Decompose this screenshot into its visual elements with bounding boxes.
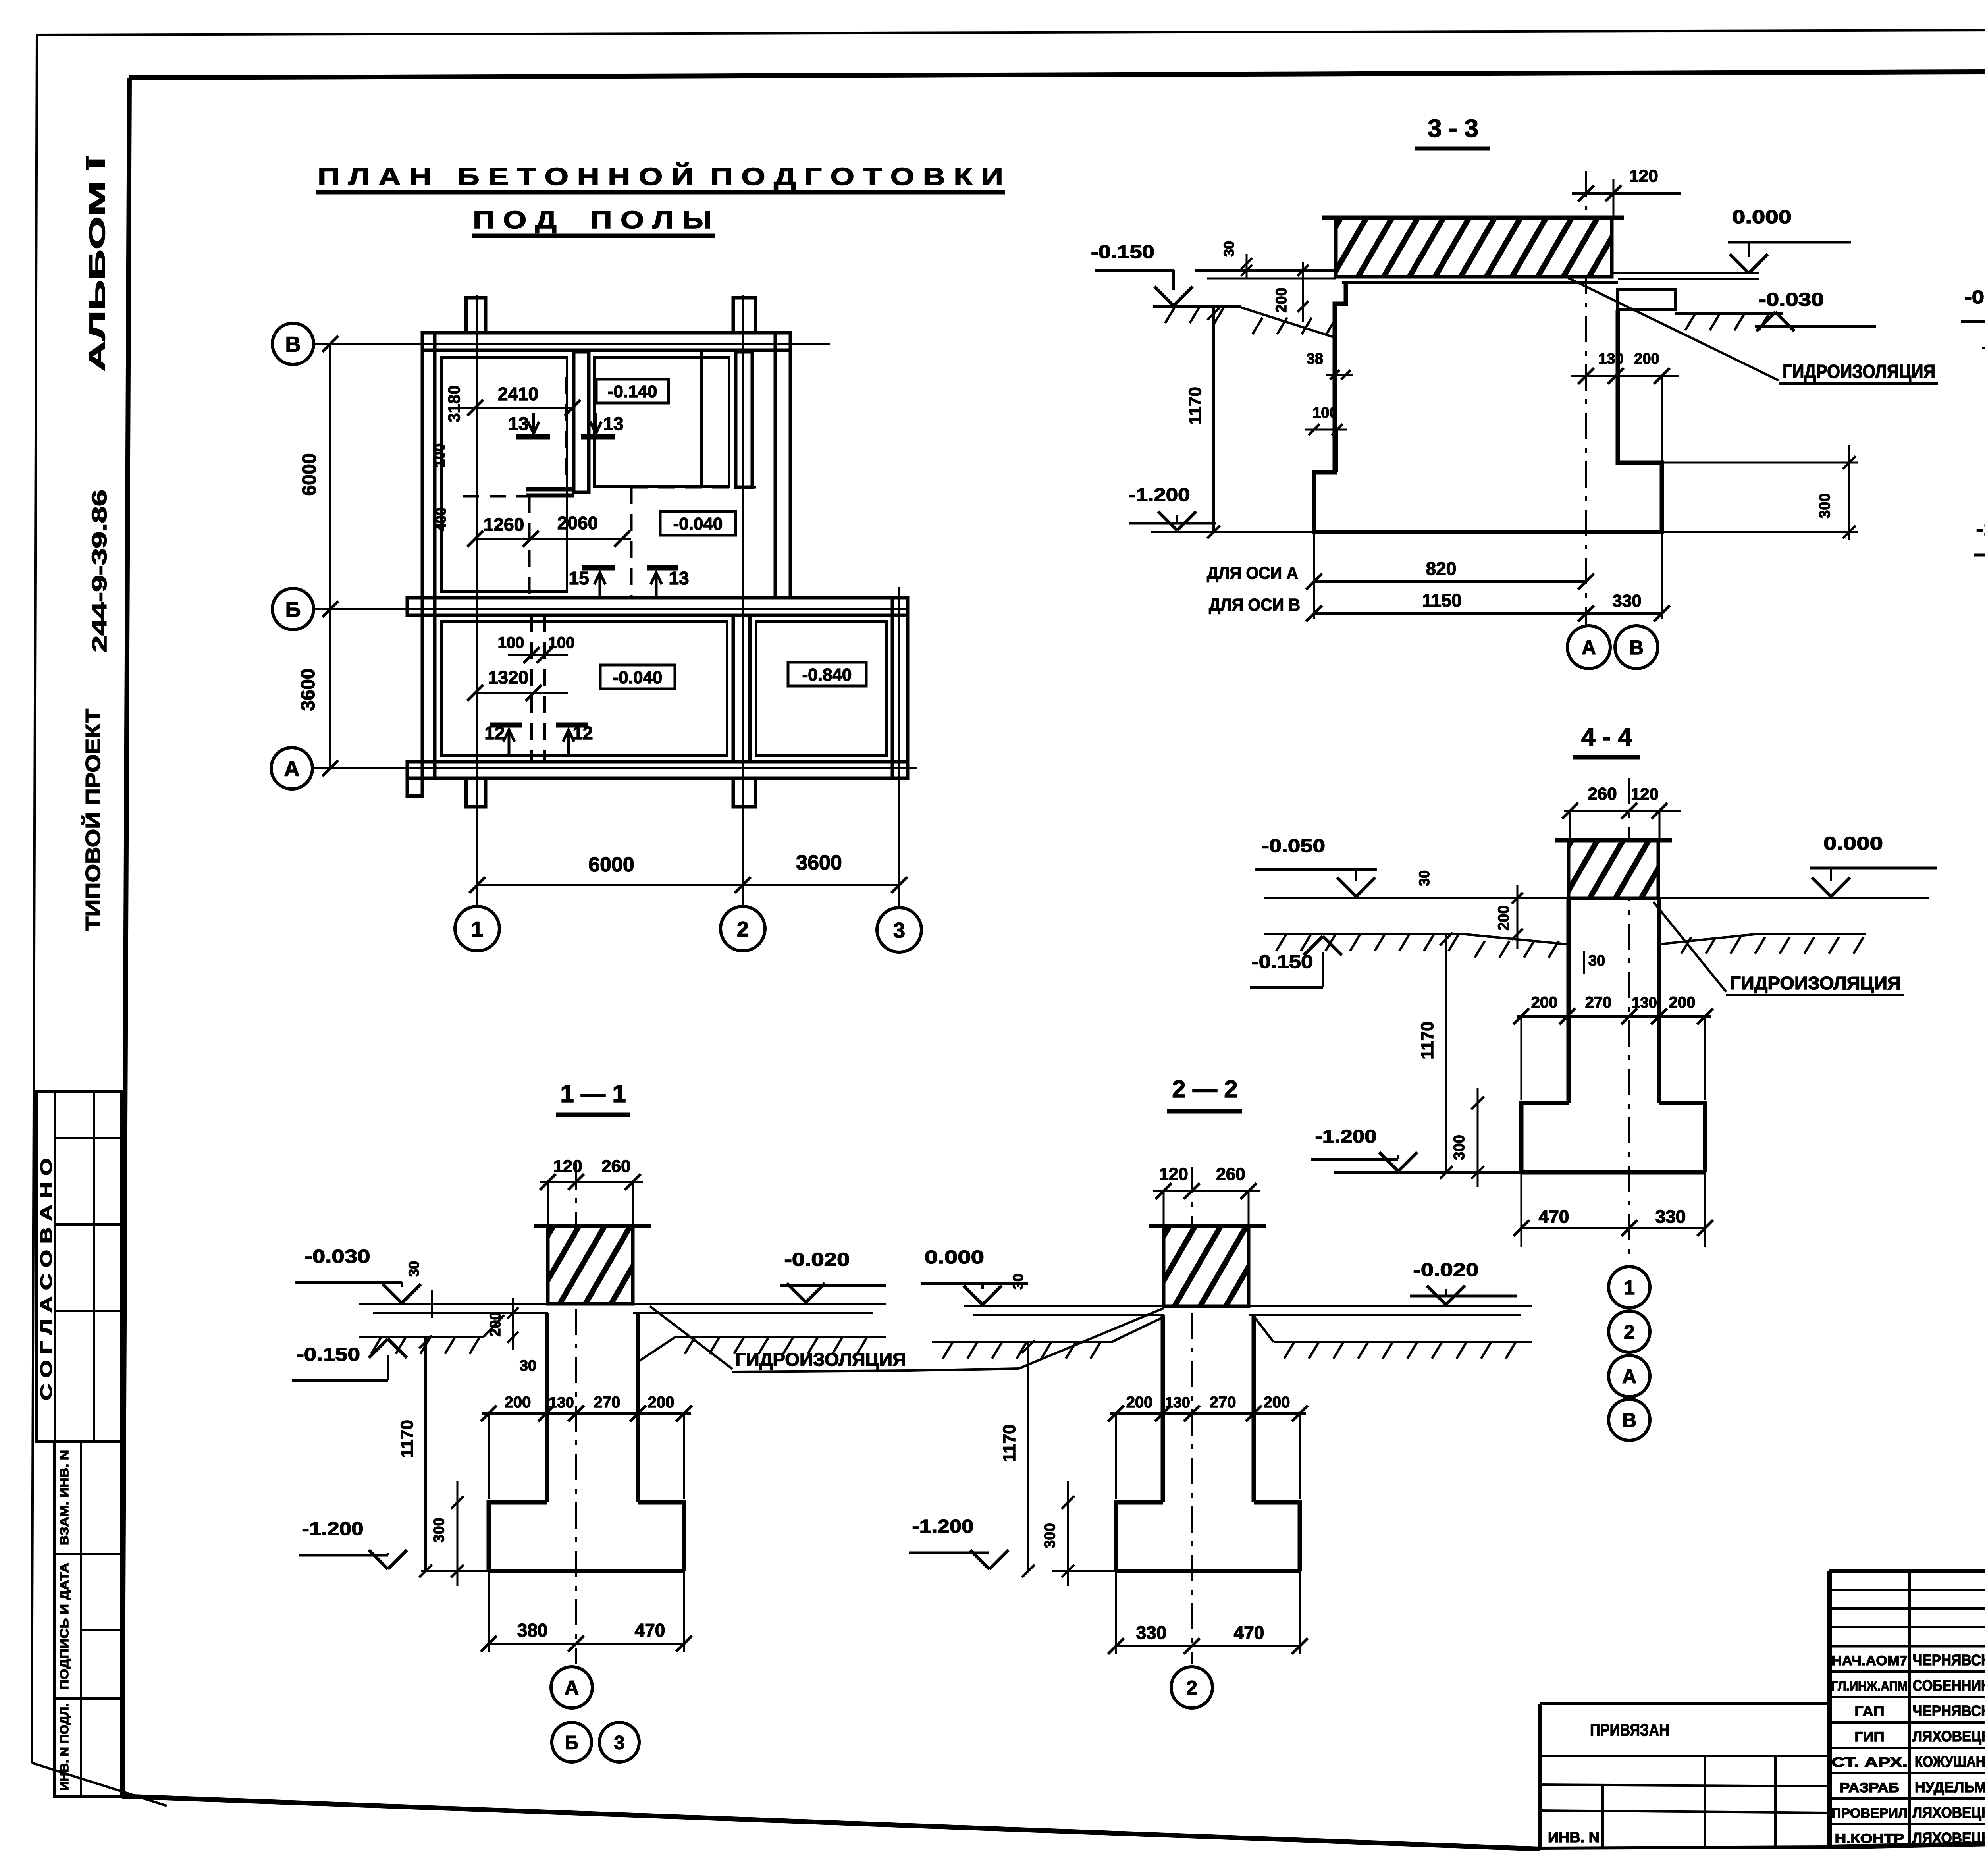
svg-text:НАЧ.АОМ7: НАЧ.АОМ7	[1831, 1653, 1908, 1668]
svg-text:300: 300	[431, 1517, 447, 1542]
svg-text:-0.030: -0.030	[305, 1246, 370, 1267]
svg-text:1260: 1260	[484, 514, 524, 535]
svg-text:В: В	[285, 332, 301, 356]
svg-text:200: 200	[1531, 994, 1558, 1011]
svg-text:-0.030: -0.030	[1759, 289, 1824, 310]
svg-text:1150: 1150	[1422, 590, 1462, 611]
svg-text:260: 260	[601, 1157, 630, 1176]
svg-text:300: 300	[1817, 493, 1833, 518]
svg-text:330: 330	[1136, 1622, 1167, 1643]
svg-text:А: А	[1582, 636, 1596, 659]
svg-text:3: 3	[614, 1732, 625, 1753]
svg-text:1170: 1170	[1185, 387, 1205, 424]
svg-text:4 - 4: 4 - 4	[1581, 723, 1632, 751]
svg-text:2060: 2060	[557, 513, 598, 533]
svg-text:-0.020: -0.020	[1413, 1259, 1479, 1280]
svg-text:2: 2	[737, 917, 749, 941]
svg-text:-0.840: -0.840	[802, 665, 852, 684]
svg-text:270: 270	[1210, 1394, 1236, 1411]
svg-text:270: 270	[594, 1394, 621, 1411]
svg-text:ПРОВЕРИЛ: ПРОВЕРИЛ	[1831, 1806, 1908, 1821]
svg-text:13: 13	[669, 568, 689, 588]
svg-text:15: 15	[569, 568, 589, 588]
svg-text:ЛЯХОВЕЦКАЯ: ЛЯХОВЕЦКАЯ	[1913, 1830, 1985, 1847]
svg-text:ЛЯХОВЕЦКАЯ: ЛЯХОВЕЦКАЯ	[1913, 1728, 1985, 1745]
svg-text:1: 1	[1624, 1276, 1635, 1299]
svg-text:120: 120	[553, 1157, 582, 1176]
svg-text:100: 100	[1312, 405, 1337, 421]
svg-text:ГЛ.ИНЖ.АПМ: ГЛ.ИНЖ.АПМ	[1831, 1679, 1908, 1694]
svg-text:380: 380	[517, 1620, 548, 1641]
svg-text:-0.040: -0.040	[613, 668, 663, 687]
svg-text:400: 400	[433, 507, 449, 531]
svg-text:ГИП: ГИП	[1855, 1729, 1885, 1745]
svg-text:200: 200	[505, 1394, 531, 1411]
svg-text:-0.050: -0.050	[1262, 835, 1325, 856]
svg-text:0.000: 0.000	[1732, 206, 1792, 227]
svg-text:200: 200	[1634, 351, 1659, 367]
svg-text:-0.140: -0.140	[608, 382, 657, 401]
svg-text:120: 120	[1631, 785, 1659, 803]
svg-text:200: 200	[1669, 994, 1696, 1011]
svg-text:ПОДПИСЬ И ДАТА: ПОДПИСЬ И ДАТА	[58, 1563, 71, 1690]
svg-text:С О Г Л А С О В А Н О: С О Г Л А С О В А Н О	[38, 1158, 55, 1400]
svg-text:ЛЯХОВЕЦКАЯ: ЛЯХОВЕЦКАЯ	[1913, 1805, 1985, 1821]
svg-text:КОЖУШАНЫЙ: КОЖУШАНЫЙ	[1915, 1753, 1985, 1770]
svg-text:1: 1	[471, 917, 483, 941]
svg-text:330: 330	[1612, 591, 1641, 611]
svg-text:2 — 2: 2 — 2	[1172, 1076, 1237, 1103]
svg-text:-1.200: -1.200	[302, 1518, 364, 1539]
svg-text:А: А	[1622, 1365, 1636, 1388]
svg-text:ТИПОВОЙ ПРОЕКТ: ТИПОВОЙ ПРОЕКТ	[81, 709, 105, 931]
svg-text:Б: Б	[565, 1732, 579, 1753]
svg-text:30: 30	[1588, 952, 1605, 969]
svg-text:130: 130	[1598, 351, 1623, 367]
svg-text:-1.200: -1.200	[912, 1516, 974, 1537]
svg-text:ВЗАМ. ИНВ. N: ВЗАМ. ИНВ. N	[58, 1450, 71, 1545]
svg-text:В: В	[1622, 1409, 1636, 1431]
svg-text:ПРИВЯЗАН: ПРИВЯЗАН	[1590, 1720, 1669, 1740]
svg-text:-1.200: -1.200	[1976, 519, 1985, 539]
svg-text:120: 120	[1629, 166, 1658, 186]
svg-text:260: 260	[1216, 1165, 1245, 1184]
svg-text:ЧЕРНЯВСКИЙ: ЧЕРНЯВСКИЙ	[1913, 1651, 1985, 1669]
svg-text:2410: 2410	[498, 384, 538, 404]
svg-text:-0.040: -0.040	[673, 514, 723, 534]
svg-text:6000: 6000	[299, 453, 320, 496]
svg-text:1170: 1170	[1418, 1021, 1437, 1059]
svg-text:А: А	[284, 757, 300, 781]
svg-text:470: 470	[1234, 1622, 1264, 1643]
svg-text:-0.150: -0.150	[297, 1344, 360, 1365]
svg-text:-1.200: -1.200	[1129, 484, 1190, 505]
svg-text:А: А	[565, 1677, 579, 1699]
svg-text:270: 270	[1585, 994, 1612, 1011]
svg-text:200: 200	[1126, 1394, 1153, 1411]
svg-text:3180: 3180	[445, 385, 463, 422]
svg-text:-0.150: -0.150	[1964, 287, 1985, 307]
svg-text:ДЛЯ ОСИ А: ДЛЯ ОСИ А	[1207, 563, 1298, 583]
svg-text:3600: 3600	[298, 669, 319, 711]
svg-text:100: 100	[498, 634, 524, 652]
svg-text:470: 470	[1539, 1206, 1569, 1227]
svg-text:1170: 1170	[397, 1420, 417, 1458]
svg-text:ДЛЯ ОСИ В: ДЛЯ ОСИ В	[1209, 595, 1300, 615]
svg-text:3600: 3600	[796, 851, 842, 874]
svg-text:200: 200	[648, 1394, 675, 1411]
svg-text:Б: Б	[285, 598, 301, 621]
svg-text:НУДЕЛЬМАН: НУДЕЛЬМАН	[1915, 1779, 1985, 1796]
svg-text:1170: 1170	[1000, 1424, 1019, 1462]
svg-text:РАЗРАБ: РАЗРАБ	[1840, 1780, 1899, 1795]
svg-text:38: 38	[1307, 351, 1323, 367]
svg-text:300: 300	[1042, 1523, 1058, 1548]
svg-text:0.000: 0.000	[925, 1247, 984, 1267]
svg-text:0.000: 0.000	[1823, 833, 1883, 854]
svg-text:1320: 1320	[488, 667, 528, 688]
svg-text:ИНВ. N ПОДЛ.: ИНВ. N ПОДЛ.	[58, 1703, 71, 1791]
svg-text:820: 820	[1426, 558, 1457, 579]
svg-text:30: 30	[1416, 870, 1432, 886]
svg-text:30: 30	[1010, 1274, 1026, 1290]
svg-text:120: 120	[1159, 1165, 1188, 1184]
svg-text:30: 30	[406, 1261, 422, 1277]
svg-text:1 — 1: 1 — 1	[560, 1080, 626, 1108]
svg-text:3 - 3: 3 - 3	[1428, 114, 1478, 143]
svg-text:СТ. АРХ.: СТ. АРХ.	[1831, 1755, 1908, 1770]
svg-text:ИНВ. N: ИНВ. N	[1548, 1829, 1600, 1845]
svg-text:ГИДРОИЗОЛЯЦИЯ: ГИДРОИЗОЛЯЦИЯ	[1783, 361, 1935, 382]
svg-text:П Л А Н Б Е Т О Н Н О Й П О: П Л А Н Б Е Т О Н Н О Й П О Д Г О Т О В …	[318, 163, 1003, 191]
svg-text:3: 3	[893, 918, 905, 942]
svg-text:200: 200	[1273, 287, 1290, 312]
svg-text:200: 200	[1495, 905, 1512, 930]
svg-text:200: 200	[487, 1311, 504, 1336]
svg-text:330: 330	[1655, 1206, 1686, 1227]
svg-text:-0.020: -0.020	[784, 1249, 850, 1270]
svg-text:13: 13	[508, 413, 528, 434]
svg-text:ГИДРОИЗОЛЯЦИЯ: ГИДРОИЗОЛЯЦИЯ	[735, 1349, 906, 1370]
svg-text:470: 470	[635, 1620, 665, 1641]
svg-text:В: В	[1629, 636, 1644, 659]
svg-text:ГИДРОИЗОЛЯЦИЯ: ГИДРОИЗОЛЯЦИЯ	[1730, 973, 1901, 993]
svg-text:СОБЕННИКОВ: СОБЕННИКОВ	[1913, 1677, 1985, 1694]
svg-text:2: 2	[1624, 1321, 1635, 1343]
svg-text:2: 2	[1186, 1677, 1197, 1699]
svg-text:ЧЕРНЯВСКИЙ: ЧЕРНЯВСКИЙ	[1913, 1702, 1985, 1720]
svg-text:100: 100	[432, 443, 448, 467]
svg-text:АЛЬБОМ Ī: АЛЬБОМ Ī	[85, 156, 110, 372]
svg-text:-0.150: -0.150	[1091, 241, 1154, 262]
svg-text:30: 30	[520, 1357, 536, 1374]
svg-text:200: 200	[1264, 1394, 1290, 1411]
svg-text:ГАП: ГАП	[1855, 1704, 1885, 1719]
svg-text:300: 300	[1451, 1135, 1468, 1160]
svg-text:Н.КОНТР: Н.КОНТР	[1835, 1831, 1904, 1846]
svg-text:260: 260	[1588, 784, 1617, 804]
svg-text:-1.200: -1.200	[1315, 1126, 1377, 1147]
svg-text:244-9-39.86: 244-9-39.86	[88, 490, 111, 652]
svg-text:30: 30	[1221, 241, 1237, 257]
svg-text:6000: 6000	[588, 853, 634, 876]
svg-text:П О Д П О Л Ы: П О Д П О Л Ы	[473, 206, 712, 234]
svg-text:13: 13	[603, 413, 623, 434]
